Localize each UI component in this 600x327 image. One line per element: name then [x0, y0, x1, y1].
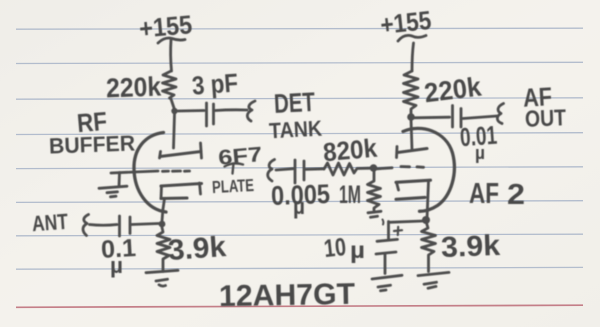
svg-text:µ: µ [350, 237, 365, 263]
svg-text:DET: DET [273, 87, 316, 119]
svg-text:+155: +155 [379, 5, 433, 40]
svg-text:AF: AF [469, 178, 499, 210]
svg-text:10: 10 [323, 233, 348, 263]
svg-text:220k: 220k [106, 72, 163, 104]
svg-text:2: 2 [507, 179, 525, 211]
svg-text:12AH7GT: 12AH7GT [219, 278, 356, 313]
svg-text:820k: 820k [322, 133, 379, 168]
svg-text:3 pF: 3 pF [191, 67, 239, 100]
svg-text:PLATE: PLATE [212, 175, 255, 197]
svg-text:+155: +155 [138, 9, 193, 44]
svg-text:µ: µ [293, 194, 305, 219]
svg-text:µ: µ [475, 143, 485, 163]
svg-text:TANK: TANK [268, 116, 322, 144]
svg-text:1M: 1M [339, 181, 361, 209]
svg-text:µ: µ [110, 253, 123, 278]
svg-text:ANT: ANT [31, 209, 69, 236]
svg-text:OUT: OUT [525, 104, 567, 131]
svg-text:BUFFER: BUFFER [49, 131, 136, 159]
svg-text:6F7: 6F7 [217, 143, 263, 170]
svg-text:3.9k: 3.9k [167, 231, 228, 267]
svg-text:3.9k: 3.9k [440, 230, 501, 264]
